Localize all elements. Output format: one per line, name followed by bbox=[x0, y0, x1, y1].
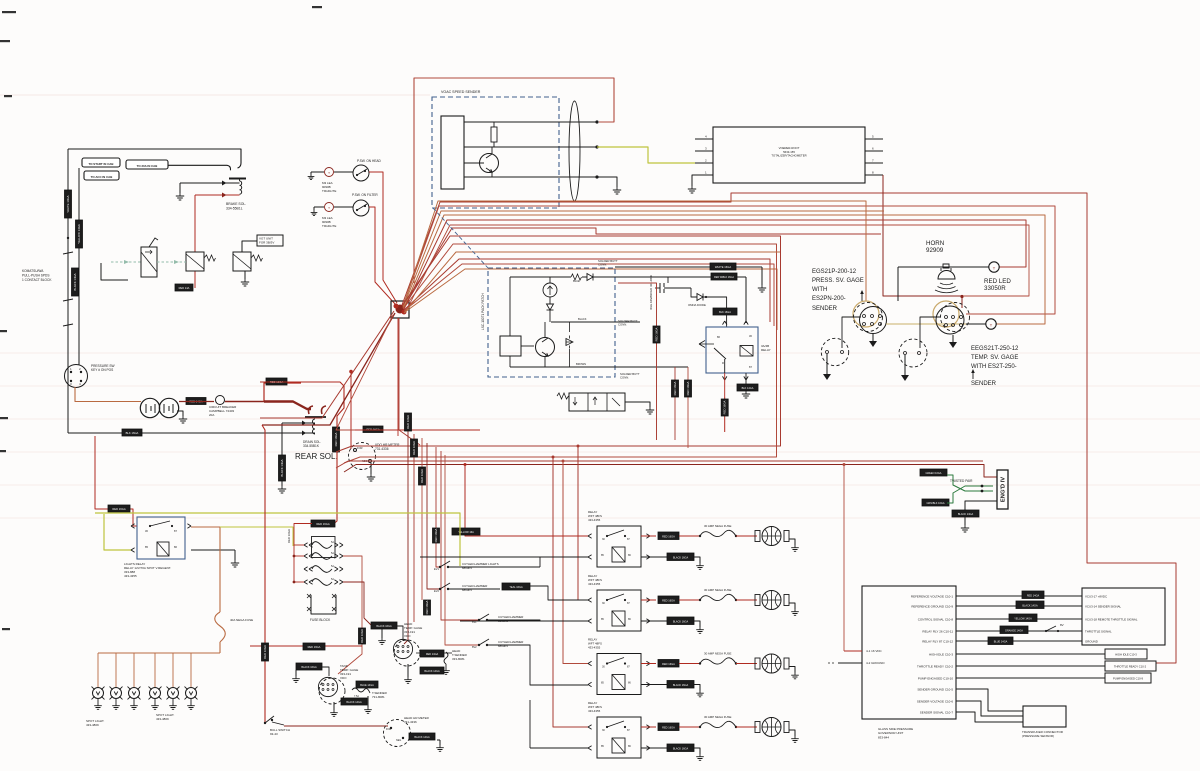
svg-text:T9GDLITE: T9GDLITE bbox=[322, 189, 336, 193]
svg-text:433-4355: 433-4355 bbox=[588, 582, 601, 586]
wire bbox=[725, 373, 746, 397]
ground bbox=[597, 177, 621, 194]
ground bbox=[961, 517, 969, 532]
svg-text:CONN.: CONN. bbox=[620, 376, 629, 380]
shield ellipse bbox=[569, 101, 580, 201]
svg-text:REFERENCE GROUND C10-9: REFERENCE GROUND C10-9 bbox=[911, 604, 953, 608]
label m3 lea 2 bbox=[322, 216, 336, 228]
motor row 1 bbox=[755, 527, 789, 546]
node cab feed labels bbox=[82, 158, 168, 180]
connector temp bbox=[936, 303, 970, 335]
svg-text:KEY # ON POS: KEY # ON POS bbox=[91, 368, 113, 372]
wire yellow bbox=[597, 147, 695, 163]
wire bbox=[78, 168, 80, 365]
ground bbox=[278, 486, 286, 493]
wire white bbox=[615, 266, 762, 268]
svg-text:BLACK 14GA: BLACK 14GA bbox=[424, 670, 440, 673]
wire thick feed bbox=[264, 402, 311, 410]
wire bus B6 bbox=[403, 211, 884, 308]
svg-text:4-1 16 VDC: 4-1 16 VDC bbox=[866, 649, 883, 653]
connector temp 2 bbox=[899, 339, 927, 367]
wire bbox=[95, 436, 137, 526]
wire row 4b bbox=[736, 726, 757, 728]
switch EV1 bbox=[434, 557, 588, 571]
wire bbox=[674, 367, 676, 440]
svg-text:RED 14A: RED 14A bbox=[179, 286, 190, 290]
wire bbox=[421, 438, 423, 600]
svg-text:FOR 3B/3V: FOR 3B/3V bbox=[259, 240, 274, 244]
fuse row 2 bbox=[699, 594, 737, 601]
valve V4 bbox=[569, 393, 625, 411]
ground bbox=[688, 175, 696, 193]
switch EV4 bbox=[472, 639, 588, 685]
svg-text:TO 30A IN CAB: TO 30A IN CAB bbox=[137, 164, 158, 168]
label psw filter bbox=[352, 193, 378, 197]
label vdo hr meter bbox=[375, 443, 400, 451]
svg-text:5A: 5A bbox=[331, 565, 334, 568]
ground black row 2 bbox=[694, 621, 704, 633]
svg-text:OMNA DIODE: OMNA DIODE bbox=[688, 303, 706, 307]
svg-text:8869K5: 8869K5 bbox=[462, 588, 472, 592]
svg-text:5A: 5A bbox=[331, 552, 334, 555]
wire bbox=[577, 445, 589, 601]
svg-text:EGS21P-200-12: EGS21P-200-12 bbox=[812, 269, 857, 275]
wire bbox=[398, 318, 588, 536]
ground black row 4 bbox=[694, 748, 704, 760]
svg-text:RED 16GA: RED 16GA bbox=[420, 469, 424, 483]
sender squiggle bbox=[352, 688, 370, 698]
wire bbox=[262, 313, 395, 425]
wire label RED 16GA bbox=[303, 643, 325, 650]
wire label YELLOW 14GA bbox=[1009, 614, 1037, 622]
wire label bbox=[653, 326, 660, 343]
wire bbox=[427, 443, 440, 589]
wire row 3b bbox=[736, 663, 757, 665]
svg-text:VOAC SPEED SENDER: VOAC SPEED SENDER bbox=[441, 90, 481, 94]
ground bbox=[869, 334, 877, 347]
lamp L2 bbox=[325, 203, 334, 212]
led LED1 bbox=[989, 262, 999, 272]
pins press bbox=[863, 315, 882, 326]
svg-text:RED 16GA: RED 16GA bbox=[425, 600, 429, 614]
wire label RED 16GA bbox=[262, 643, 269, 661]
connector head hr meter bbox=[384, 720, 411, 747]
ground black row 1 bbox=[694, 557, 704, 569]
svg-text:BLUE: BLUE bbox=[573, 279, 580, 283]
svg-text:433-4355: 433-4355 bbox=[588, 645, 601, 649]
wire label BLACK 14GA bbox=[72, 268, 79, 296]
wire bbox=[284, 725, 388, 727]
ground bbox=[742, 391, 750, 398]
svg-text:TEAL 16GA: TEAL 16GA bbox=[509, 586, 523, 589]
svg-text:P.SW. ON FILTER: P.SW. ON FILTER bbox=[352, 193, 378, 197]
solenoid SOL1 bar bbox=[229, 178, 246, 180]
svg-text:FOR: FOR bbox=[386, 728, 391, 731]
wire label RED 16GA bbox=[355, 426, 480, 433]
wire bbox=[530, 684, 588, 686]
wire label BLUE 14GA bbox=[356, 681, 378, 688]
relay row 3 bbox=[588, 638, 656, 695]
svg-text:THROTTLE SIGNAL: THROTTLE SIGNAL bbox=[1085, 629, 1112, 633]
svg-text:SENDER VOLTAGE C10-6: SENDER VOLTAGE C10-6 bbox=[917, 699, 953, 703]
label idle advancer bbox=[649, 275, 653, 310]
svg-text:731-8081: 731-8081 bbox=[372, 695, 385, 699]
svg-text:40A NEGA FUSE: 40A NEGA FUSE bbox=[230, 618, 253, 622]
wire bbox=[281, 423, 283, 486]
svg-text:T9GDLITE: T9GDLITE bbox=[322, 224, 336, 228]
led LED2 bbox=[986, 319, 996, 329]
label komatsu block bbox=[22, 269, 52, 282]
svg-text:RED 16GA: RED 16GA bbox=[655, 327, 659, 341]
relay K1 box bbox=[706, 327, 758, 373]
svg-text:PRESS. SV. GAGE: PRESS. SV. GAGE bbox=[812, 278, 864, 284]
fuse row 4 bbox=[699, 721, 737, 728]
label 3A4B relay bbox=[761, 344, 771, 352]
svg-text:THROTTLE READY C10-2: THROTTLE READY C10-2 bbox=[1114, 665, 1147, 669]
wire teal pilot bbox=[157, 260, 186, 264]
wire label bbox=[672, 380, 679, 397]
wire tan link bbox=[886, 323, 984, 325]
wire bbox=[552, 456, 589, 728]
svg-text:93-43: 93-43 bbox=[270, 732, 278, 736]
wire blue diag bbox=[433, 208, 488, 268]
solenoid SOL2 hooks bbox=[309, 406, 327, 414]
connector tank gage bbox=[318, 667, 345, 704]
wire label BLUE 14GA bbox=[988, 637, 1013, 645]
ground bbox=[901, 355, 909, 381]
wire bbox=[441, 451, 479, 620]
breaker CB1 bbox=[179, 396, 264, 405]
wire bus B3 bbox=[404, 215, 1045, 324]
svg-text:BLACK 16GA: BLACK 16GA bbox=[376, 625, 392, 628]
label fuse row 2 bbox=[704, 588, 731, 592]
relay row 1 bbox=[588, 510, 656, 567]
transformer plates bbox=[146, 404, 173, 413]
wire label BLACK 16GA row 2 bbox=[667, 617, 694, 625]
wire label bbox=[419, 467, 426, 485]
wire black row 4 bbox=[641, 747, 667, 749]
wire label BLACK 14GA bbox=[341, 698, 367, 705]
svg-text:PUMP ENGAGED C10-10: PUMP ENGAGED C10-10 bbox=[918, 676, 953, 680]
diode D2 bbox=[547, 297, 554, 322]
wire ticks bbox=[63, 237, 73, 326]
wire label RED 16GA vert bbox=[359, 628, 366, 644]
wire bbox=[509, 277, 511, 367]
label lights relay bbox=[124, 562, 171, 578]
svg-text:8V2: 8V2 bbox=[472, 645, 477, 649]
svg-text:BLACK 16GA: BLACK 16GA bbox=[673, 621, 689, 624]
svg-text:RELAY: RELAY bbox=[761, 348, 771, 352]
svg-text:BLACK 16GA: BLACK 16GA bbox=[673, 684, 689, 687]
ground bbox=[378, 629, 386, 644]
svg-text:PUMP ENGAGED C10-9: PUMP ENGAGED C10-9 bbox=[1113, 677, 1143, 681]
svg-text:CONN.: CONN. bbox=[598, 263, 607, 267]
pins totalizer bbox=[695, 135, 883, 176]
valve V3 bbox=[233, 252, 251, 271]
svg-text:RED 16GA: RED 16GA bbox=[662, 535, 675, 539]
wire bus B1 bbox=[402, 193, 1176, 663]
wire bbox=[67, 366, 69, 433]
svg-text:RED 16GA: RED 16GA bbox=[662, 599, 675, 603]
wire bbox=[882, 175, 884, 234]
labels governor left bbox=[866, 649, 885, 665]
svg-text:EEGS21T-250-12: EEGS21T-250-12 bbox=[971, 346, 1019, 352]
svg-text:8V: 8V bbox=[1060, 623, 1064, 627]
wire bbox=[369, 207, 396, 305]
transistor Q1 bbox=[464, 147, 499, 177]
label transducer bbox=[1022, 730, 1064, 738]
box high idle bbox=[1105, 649, 1147, 659]
wire bbox=[920, 317, 941, 348]
diode OMNA bbox=[691, 288, 727, 327]
wire fuse out4 bbox=[343, 582, 371, 625]
label m3 lea bbox=[322, 181, 336, 193]
label pressure sw bbox=[91, 364, 115, 372]
svg-text:BLACK 16GA: BLACK 16GA bbox=[301, 666, 317, 669]
svg-text:VCU3-14 SENDER SIGNAL: VCU3-14 SENDER SIGNAL bbox=[1085, 604, 1122, 608]
label spot light 2 bbox=[156, 713, 174, 721]
svg-text:BLK 16GA: BLK 16GA bbox=[719, 311, 731, 314]
label temp gage bbox=[971, 346, 1019, 370]
ground bbox=[330, 702, 338, 716]
solenoid SOL2 bar bbox=[305, 416, 326, 418]
wire label BLACK 14GA bbox=[952, 501, 997, 517]
labels VCU bbox=[1085, 594, 1138, 643]
label press gage bbox=[812, 269, 864, 302]
svg-text:8869K5: 8869K5 bbox=[462, 566, 472, 570]
box sensor bbox=[500, 336, 521, 356]
ground bbox=[177, 411, 187, 423]
relay row 2 bbox=[588, 574, 656, 631]
svg-text:BLACK 16GA: BLACK 16GA bbox=[673, 557, 689, 560]
wire bbox=[349, 370, 353, 449]
wire row 1b bbox=[736, 535, 757, 537]
wire bottom bbox=[510, 362, 640, 367]
ground black row 3 bbox=[694, 685, 704, 697]
wire bbox=[842, 317, 861, 348]
zener D3 bbox=[566, 322, 573, 367]
wire bbox=[966, 323, 986, 325]
wire label WHITE 16GA bbox=[710, 263, 736, 270]
wire label BLK 16GA bbox=[122, 429, 142, 436]
svg-text:ORANGE 14GA: ORANGE 14GA bbox=[1005, 630, 1023, 633]
svg-text:833-844: 833-844 bbox=[878, 735, 889, 739]
wire label BLACK 16GA bbox=[296, 663, 322, 670]
box sender body bbox=[441, 116, 464, 189]
spring bbox=[557, 393, 569, 399]
spring bbox=[251, 255, 263, 261]
wire label BLACK 16GA row 4 bbox=[667, 744, 694, 752]
wire bbox=[175, 193, 240, 292]
transistor Q2 bbox=[521, 322, 555, 367]
svg-text:ES2PN-200-: ES2PN-200- bbox=[812, 296, 846, 302]
svg-text:BLACK 16GA: BLACK 16GA bbox=[673, 748, 689, 751]
wire bbox=[464, 176, 597, 178]
wire bracket bbox=[101, 263, 128, 280]
svg-text:YELLOW 14GA: YELLOW 14GA bbox=[77, 224, 81, 244]
wire bbox=[260, 382, 344, 524]
wire lamp feed bbox=[98, 652, 220, 654]
ground bbox=[436, 740, 444, 751]
svg-text:FUSE BLOCK: FUSE BLOCK bbox=[310, 618, 331, 622]
wire bus LH1 bbox=[336, 252, 983, 468]
svg-text:4-2 GROUND: 4-2 GROUND bbox=[866, 661, 885, 665]
svg-text:BLACK 14GA: BLACK 14GA bbox=[958, 513, 974, 516]
ground bbox=[176, 183, 184, 200]
svg-text:GRN/BLK 16GA: GRN/BLK 16GA bbox=[926, 502, 944, 505]
resistor R1 bbox=[491, 122, 497, 147]
svg-text:P.SW. ON HEAD: P.SW. ON HEAD bbox=[357, 159, 382, 163]
wire bus B7 bbox=[404, 259, 770, 322]
svg-text:GREEN 16GA: GREEN 16GA bbox=[926, 472, 942, 475]
svg-text:BLK 16GA: BLK 16GA bbox=[126, 431, 139, 435]
meter VDO HR METER bbox=[349, 443, 376, 470]
ground row 3 bbox=[789, 667, 799, 679]
label cutler 1 bbox=[462, 562, 499, 570]
svg-text:TO START IN CAB: TO START IN CAB bbox=[89, 162, 114, 166]
svg-text:EV2: EV2 bbox=[434, 589, 439, 593]
svg-text:R: R bbox=[722, 361, 724, 365]
svg-text:VDO: VDO bbox=[404, 634, 411, 638]
svg-text:5A: 5A bbox=[331, 578, 334, 581]
switch bull bbox=[264, 716, 284, 725]
svg-text:RED 14GA: RED 14GA bbox=[426, 653, 439, 656]
wire label bbox=[433, 528, 440, 543]
wire bbox=[334, 206, 353, 208]
svg-text:VCU3-18 REMOTE THROTTLE SIGNAL: VCU3-18 REMOTE THROTTLE SIGNAL bbox=[1085, 617, 1138, 621]
svg-text:WITH: WITH bbox=[812, 287, 827, 293]
wire bbox=[724, 397, 726, 432]
wire bbox=[336, 315, 393, 430]
spring bbox=[204, 255, 216, 261]
svg-text:LSC-100T1 PACK PATCH: LSC-100T1 PACK PATCH bbox=[481, 292, 485, 330]
label REAR SOL bbox=[295, 452, 338, 461]
wire bbox=[399, 318, 420, 445]
wire bbox=[460, 620, 588, 622]
svg-text:T: T bbox=[328, 206, 330, 210]
wire black row 2 bbox=[641, 620, 667, 622]
box totalizer bbox=[713, 127, 865, 183]
svg-text:30 AMP NEGA FUSE: 30 AMP NEGA FUSE bbox=[704, 652, 731, 656]
label solder butt 3 bbox=[620, 372, 640, 380]
solenoid SOL1 coil bbox=[240, 179, 242, 195]
wire mid bbox=[551, 317, 640, 322]
wire label BLACK 14GA bbox=[409, 733, 435, 740]
label fuse row 1 bbox=[704, 524, 731, 528]
wire label YELLOW 16A bbox=[452, 528, 480, 535]
svg-text:1 CONTACT BLOCK: 1 CONTACT BLOCK bbox=[22, 278, 52, 282]
wire bbox=[191, 527, 293, 612]
svg-text:RED W/BLK 16GA: RED W/BLK 16GA bbox=[714, 276, 734, 279]
ground bbox=[646, 407, 654, 414]
svg-text:HIGH IDLE C10-3: HIGH IDLE C10-3 bbox=[929, 652, 953, 656]
svg-text:RED 16GA: RED 16GA bbox=[287, 529, 291, 543]
wire bbox=[464, 121, 597, 123]
wire label RED W/BLK bbox=[711, 273, 737, 280]
hub junction box bbox=[391, 301, 409, 318]
wire bus B8 bbox=[404, 264, 774, 326]
sender arrow 2 bbox=[971, 369, 975, 379]
wire label RED 16GA bbox=[721, 399, 728, 416]
wire label RED 14GA bbox=[186, 398, 206, 405]
connector press tan bbox=[853, 301, 879, 327]
wire transducer 2 bbox=[956, 701, 1023, 716]
wire bbox=[464, 146, 597, 148]
ground bbox=[823, 354, 831, 380]
svg-text:BRAKE SOL.: BRAKE SOL. bbox=[226, 202, 246, 206]
wire bus R2 bbox=[344, 244, 777, 463]
svg-text:33050R: 33050R bbox=[984, 285, 1006, 292]
motor row 4 bbox=[755, 718, 789, 737]
svg-text:BLACK 14GA: BLACK 14GA bbox=[1022, 605, 1038, 608]
ground row 1 bbox=[789, 539, 799, 551]
sender arrow bbox=[860, 290, 864, 301]
svg-text:BLUE 14GA: BLUE 14GA bbox=[360, 684, 374, 687]
svg-text:FOR: FOR bbox=[357, 446, 363, 450]
ground bbox=[367, 463, 375, 481]
fuse block fuses bbox=[304, 541, 343, 585]
svg-text:RED 16GA: RED 16GA bbox=[334, 432, 338, 446]
svg-text:SENDER GROUND C10-5: SENDER GROUND C10-5 bbox=[917, 687, 953, 691]
valve V1 lever bbox=[149, 238, 158, 247]
diode D1 bbox=[582, 274, 615, 281]
label cutler 2 bbox=[462, 584, 487, 592]
wire bbox=[618, 283, 657, 440]
wire row 2b bbox=[736, 599, 757, 601]
svg-text:333-8081: 333-8081 bbox=[452, 657, 465, 661]
wire fuse feed bbox=[293, 524, 312, 584]
wire gov rows 1-5 bbox=[956, 596, 1082, 641]
wire label BLACK 14GA bbox=[420, 667, 444, 674]
svg-text:RED 16GA: RED 16GA bbox=[316, 522, 330, 526]
connector head gage bbox=[393, 639, 420, 666]
pins temp bbox=[945, 316, 963, 327]
lamp L1 bbox=[325, 168, 334, 177]
svg-text:NEG: NEG bbox=[396, 739, 401, 742]
lamps spot lights bbox=[92, 687, 198, 710]
box governor bbox=[862, 586, 956, 719]
wire label GREEN 16GA bbox=[920, 469, 947, 476]
wire label BLACK 14GA bbox=[1016, 601, 1044, 609]
svg-text:TO ACC IN CAB: TO ACC IN CAB bbox=[91, 175, 113, 179]
wire label YELLOW 14GA bbox=[76, 220, 83, 248]
label press sender bbox=[812, 306, 838, 312]
wire bbox=[369, 172, 397, 303]
label twisted pair bbox=[950, 479, 973, 483]
wire label RED 16GA bbox=[266, 378, 287, 385]
valve V2 bbox=[186, 252, 204, 271]
wire lamp drops bbox=[98, 653, 191, 687]
box pump engaged bbox=[1105, 673, 1151, 683]
wire bus B2 bbox=[403, 206, 1055, 314]
svg-text:RED 16GA: RED 16GA bbox=[112, 507, 126, 511]
svg-text:T: T bbox=[328, 171, 330, 175]
svg-text:30 AMP NEGA FUSE: 30 AMP NEGA FUSE bbox=[704, 524, 731, 528]
svg-text:92909: 92909 bbox=[926, 247, 944, 254]
label totalizer bbox=[771, 146, 806, 158]
wire teal pilot bbox=[111, 260, 141, 264]
svg-text:433-4355: 433-4355 bbox=[124, 574, 137, 578]
wire black row 3 bbox=[641, 684, 667, 686]
box VCU bbox=[1082, 588, 1165, 645]
svg-text:BLACK 14GA: BLACK 14GA bbox=[414, 736, 430, 739]
svg-text:TOTALIZER/TACHOMETER: TOTALIZER/TACHOMETER bbox=[771, 154, 806, 158]
wire transducer 3 bbox=[956, 712, 1023, 722]
svg-text:TEMP. SV. GAGE: TEMP. SV. GAGE bbox=[971, 355, 1018, 361]
wire label RED 16GA row 3 bbox=[658, 660, 679, 668]
box transducer bbox=[1023, 706, 1066, 727]
label head hr meter bbox=[404, 716, 430, 724]
